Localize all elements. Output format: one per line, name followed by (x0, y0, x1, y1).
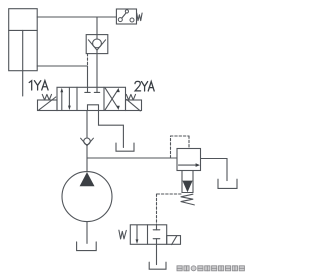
spring right (126, 94, 135, 100)
wire valve port P down (86, 111, 88, 138)
wire node A to valve port A (87, 66, 89, 87)
label 1YA (29, 81, 48, 90)
relief valve pilot (dashed) (171, 136, 190, 158)
wire rod-end line (cylinder bottom port to node A) (37, 65, 87, 67)
wire valve port T elbow to tank (99, 111, 124, 148)
wire unloading valve to tank (156, 244, 158, 264)
wire relief outlet to tank (201, 159, 228, 181)
tank (pump) (77, 242, 97, 251)
relief valve (177, 149, 201, 171)
tank (unloading valve) (149, 262, 166, 269)
pilot-operated check valve (86, 17, 108, 54)
wire check valve to pump (86, 146, 88, 172)
watermark (177, 266, 244, 271)
relief valve seat (182, 171, 193, 193)
centre position P-T connection (88, 105, 99, 111)
pilot line (dashed) to check valve (87, 54, 89, 66)
cylinder body (9, 9, 38, 71)
label 2YA (135, 81, 154, 91)
unloading valve blocked position (153, 225, 160, 245)
cylinder piston (9, 29, 38, 31)
pressure switch (116, 9, 136, 24)
tank (relief) (218, 179, 237, 188)
remote unloading line (dashed) (157, 194, 182, 225)
solenoid 2YA (126, 99, 142, 111)
left position flow arrows (60, 88, 70, 111)
right position crossed arrows (105, 88, 120, 110)
unloading valve spring (119, 230, 126, 239)
wire pump suction (86, 222, 88, 244)
wire pump branch to relief valve (87, 157, 177, 159)
wire check valve to valve port B (96, 54, 98, 88)
check valve (pump line) (81, 138, 94, 146)
unloading valve solenoid (167, 236, 181, 245)
spring left (42, 94, 51, 100)
pressure switch spring (137, 13, 142, 21)
unloading valve open position arrow (136, 225, 139, 244)
pump (62, 172, 112, 222)
directional valve 4/3 body (57, 87, 126, 110)
unloading valve 2/2 body (130, 225, 166, 245)
relief valve spring (181, 194, 194, 205)
tank (T line) (116, 143, 134, 151)
cylinder rod (22, 30, 24, 96)
centre position blocked ports (85, 87, 100, 92)
solenoid 1YA (38, 97, 58, 111)
wire cap-end line (cylinder top port to pressure switch) (37, 16, 116, 18)
